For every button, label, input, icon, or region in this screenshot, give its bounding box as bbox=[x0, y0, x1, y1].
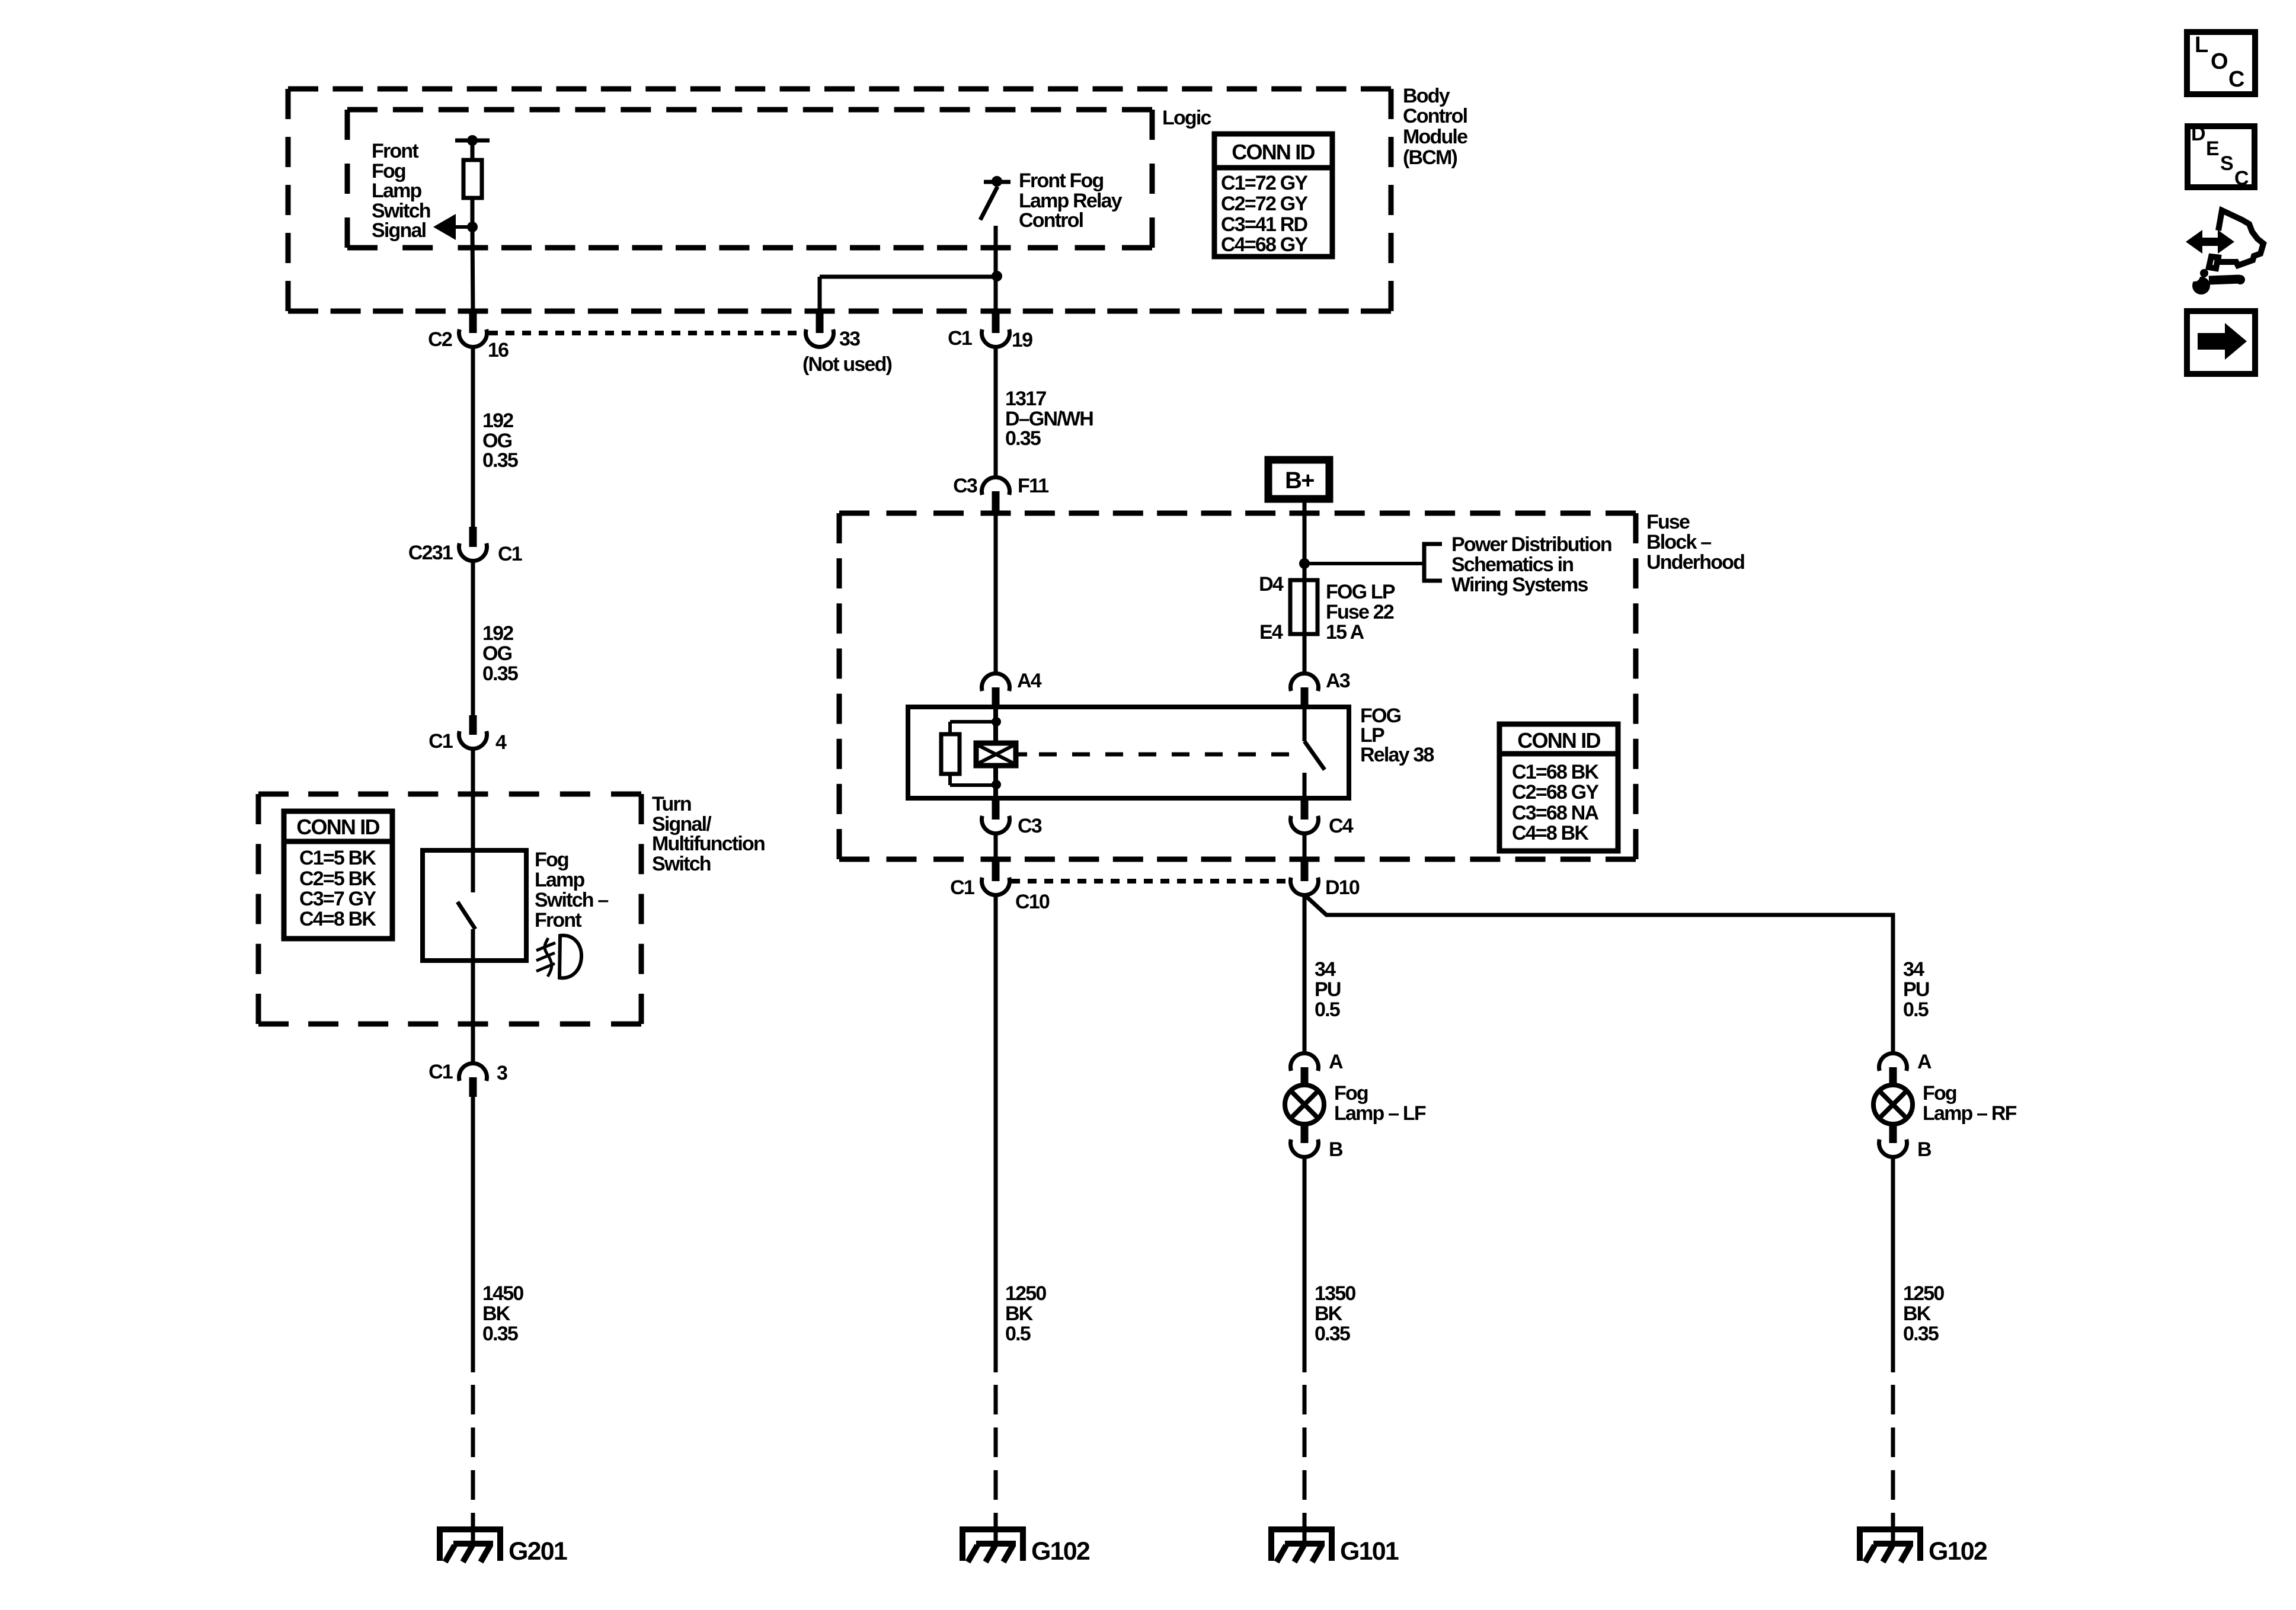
svg-text:L: L bbox=[2195, 33, 2208, 57]
svg-text:C2=72 GY: C2=72 GY bbox=[1221, 193, 1308, 215]
svg-text:A4: A4 bbox=[1017, 670, 1042, 692]
relay box bbox=[908, 707, 1349, 798]
svg-text:0.35: 0.35 bbox=[482, 449, 518, 472]
svg-text:BK: BK bbox=[482, 1302, 511, 1325]
svg-text:15 A: 15 A bbox=[1326, 621, 1364, 644]
svg-text:1450: 1450 bbox=[482, 1282, 523, 1305]
svg-text:D: D bbox=[2191, 123, 2206, 145]
relay control driver blade bbox=[980, 187, 997, 220]
svg-text:192: 192 bbox=[482, 622, 513, 645]
relay switch upper contact bbox=[1303, 709, 1307, 741]
svg-text:S: S bbox=[2220, 152, 2234, 175]
svg-text:16: 16 bbox=[488, 339, 509, 361]
svg-text:D4: D4 bbox=[1259, 573, 1284, 596]
connector C3 pin F11 bbox=[982, 478, 1010, 495]
DESC icon box bbox=[2188, 126, 2255, 187]
svg-text:1250: 1250 bbox=[1005, 1282, 1046, 1305]
wire 192 OG lower bbox=[471, 561, 475, 716]
signal arrow (Front Fog Lamp Switch Signal) bbox=[443, 225, 472, 229]
svg-text:E: E bbox=[2206, 137, 2220, 160]
in-line connector dotted line C2-33 bbox=[489, 331, 803, 335]
svg-text:1350: 1350 bbox=[1315, 1282, 1355, 1305]
wire 1317 bbox=[994, 347, 998, 478]
B+ terminal bbox=[1268, 460, 1329, 499]
dashed wire to G201 bbox=[471, 1385, 475, 1527]
svg-text:1250: 1250 bbox=[1903, 1282, 1944, 1305]
wire bbox=[994, 226, 998, 313]
wire bbox=[471, 198, 475, 229]
in-line connector dotted line C10-D10 bbox=[1011, 879, 1290, 884]
svg-text:Control: Control bbox=[1403, 105, 1467, 127]
wire C4 to box edge bbox=[1303, 833, 1307, 862]
wire from B+ bbox=[1303, 502, 1307, 581]
connector C231 C1 bbox=[469, 527, 477, 547]
svg-text:C4: C4 bbox=[1329, 815, 1354, 837]
svg-text:CONN ID: CONN ID bbox=[1517, 728, 1600, 753]
node: coil top bbox=[992, 717, 1001, 726]
svg-text:Lamp – RF: Lamp – RF bbox=[1923, 1102, 2017, 1125]
svg-text:O: O bbox=[2211, 49, 2228, 74]
svg-text:C3=41 RD: C3=41 RD bbox=[1221, 213, 1308, 236]
svg-text:A: A bbox=[1329, 1051, 1343, 1073]
wire D10 down bbox=[1303, 895, 1307, 1054]
svg-text:(Not used): (Not used) bbox=[802, 353, 892, 376]
svg-text:B+: B+ bbox=[1285, 468, 1314, 494]
svg-text:0.35: 0.35 bbox=[1903, 1323, 1939, 1345]
svg-text:Lamp: Lamp bbox=[372, 180, 422, 202]
relay resistor branch bbox=[950, 720, 996, 724]
wire C3 to box edge bbox=[994, 833, 998, 862]
svg-text:C1: C1 bbox=[428, 1061, 453, 1083]
fog lamp RF bbox=[1873, 1085, 1913, 1124]
svg-text:Fuse: Fuse bbox=[1646, 511, 1690, 533]
svg-text:Relay 38: Relay 38 bbox=[1360, 744, 1434, 766]
fog lamp icon bbox=[559, 936, 581, 978]
svg-text:1317: 1317 bbox=[1005, 388, 1046, 410]
svg-text:Signal: Signal bbox=[372, 219, 426, 242]
svg-text:C3=7 GY: C3=7 GY bbox=[299, 888, 376, 910]
ground G201 bbox=[440, 1529, 500, 1561]
svg-text:192: 192 bbox=[482, 409, 513, 432]
Turn Signal/Multifunction Switch dashed box bbox=[258, 792, 641, 797]
connector pin 33 (Not used) bbox=[816, 312, 824, 333]
svg-text:CONN ID: CONN ID bbox=[296, 815, 379, 839]
fuse FOG LP 22 (D4/E4) bbox=[1290, 580, 1318, 634]
svg-text:A: A bbox=[1917, 1051, 1932, 1073]
svg-text:Schematics in: Schematics in bbox=[1451, 553, 1573, 576]
svg-text:Body: Body bbox=[1403, 85, 1450, 107]
relay switch blade bbox=[1304, 741, 1325, 770]
ground G102 (RF) bbox=[1860, 1529, 1920, 1561]
svg-text:C3=68 NA: C3=68 NA bbox=[1512, 802, 1599, 824]
svg-text:(BCM): (BCM) bbox=[1403, 146, 1457, 169]
svg-text:Fog: Fog bbox=[1923, 1082, 1956, 1105]
svg-text:Block –: Block – bbox=[1646, 531, 1711, 553]
connector C1 pin 4 bbox=[469, 715, 477, 735]
svg-text:Lamp – LF: Lamp – LF bbox=[1334, 1102, 1426, 1125]
svg-text:4: 4 bbox=[495, 731, 507, 754]
next-page arrow icon box bbox=[2187, 311, 2255, 374]
svg-text:PU: PU bbox=[1315, 978, 1341, 1001]
wire D10 to RF lamp bbox=[1304, 895, 1893, 1054]
svg-text:C2=5 BK: C2=5 BK bbox=[299, 868, 376, 890]
svg-text:G101: G101 bbox=[1340, 1537, 1399, 1566]
TS CONN ID table bbox=[284, 811, 392, 939]
fog lamp LF bbox=[1285, 1085, 1324, 1124]
connector C3 (relay out) bbox=[992, 798, 1000, 820]
svg-text:Fog: Fog bbox=[535, 849, 568, 871]
wire 1250 BK (RF) bbox=[1891, 1157, 1895, 1372]
BCM CONN ID table bbox=[1214, 134, 1332, 257]
svg-text:C2: C2 bbox=[428, 328, 452, 351]
svg-text:BK: BK bbox=[1903, 1302, 1932, 1325]
svg-text:0.5: 0.5 bbox=[1903, 998, 1929, 1021]
svg-text:C1: C1 bbox=[498, 543, 522, 565]
svg-text:0.35: 0.35 bbox=[482, 1323, 518, 1345]
relay coil wire bbox=[993, 707, 998, 744]
svg-text:G102: G102 bbox=[1031, 1537, 1090, 1566]
Body Control Module (BCM) dashed box bbox=[288, 87, 1391, 92]
Logic dashed box bbox=[347, 107, 1152, 113]
fog lamp switch box bbox=[423, 850, 526, 961]
switch upper contact bbox=[471, 850, 475, 892]
svg-text:C4=8 BK: C4=8 BK bbox=[299, 908, 376, 930]
Fuse Block - Underhood dashed box bbox=[839, 511, 1636, 516]
svg-text:C1=72 GY: C1=72 GY bbox=[1221, 172, 1308, 194]
svg-text:C: C bbox=[2234, 167, 2249, 190]
wire 1350 BK bbox=[1303, 1157, 1307, 1372]
node: logic input tee bbox=[455, 139, 490, 143]
connector A (LF) bbox=[1291, 1054, 1319, 1071]
svg-text:C1: C1 bbox=[428, 730, 453, 753]
switch lower wire bbox=[471, 929, 475, 1065]
wire 192 OG bbox=[471, 347, 475, 527]
svg-text:D10: D10 bbox=[1325, 876, 1360, 899]
relay coil X-box bbox=[976, 743, 1016, 766]
connector B (RF) bbox=[1879, 1140, 1907, 1157]
svg-text:Turn: Turn bbox=[652, 793, 691, 815]
svg-text:B: B bbox=[1917, 1138, 1932, 1161]
connector C1 pin 3 bbox=[459, 1064, 487, 1081]
svg-text:C1: C1 bbox=[950, 876, 974, 899]
svg-text:Module: Module bbox=[1403, 126, 1467, 148]
wire 1450 BK bbox=[471, 1096, 475, 1372]
svg-text:C1: C1 bbox=[948, 327, 972, 350]
svg-text:Switch: Switch bbox=[652, 853, 711, 875]
ground G101 bbox=[1271, 1529, 1332, 1561]
svg-text:E4: E4 bbox=[1259, 621, 1283, 644]
svg-text:Switch –: Switch – bbox=[535, 889, 608, 911]
connector B (LF) bbox=[1291, 1140, 1319, 1157]
svg-text:Front: Front bbox=[535, 909, 581, 932]
svg-text:C10: C10 bbox=[1015, 891, 1050, 913]
svg-text:Fog: Fog bbox=[1334, 1082, 1368, 1105]
svg-text:CONN ID: CONN ID bbox=[1232, 140, 1315, 164]
svg-text:0.35: 0.35 bbox=[482, 662, 518, 685]
relay control dashed line bbox=[1016, 753, 1027, 757]
connector D10 bbox=[1301, 861, 1309, 881]
svg-text:Fuse 22: Fuse 22 bbox=[1326, 601, 1394, 623]
relay switch lower contact bbox=[1303, 773, 1307, 796]
wire fuse to A3 bbox=[1303, 634, 1307, 674]
schematic/wrench icon bbox=[2186, 230, 2234, 254]
svg-text:0.5: 0.5 bbox=[1315, 998, 1340, 1021]
connector C1 pin 19 bbox=[992, 312, 1000, 333]
wire bbox=[472, 227, 473, 313]
dashed wire to G102 bbox=[994, 1385, 998, 1527]
FB CONN ID table bbox=[1499, 724, 1618, 851]
svg-text:C231: C231 bbox=[408, 542, 453, 564]
svg-text:A3: A3 bbox=[1326, 670, 1350, 692]
svg-text:C1=5 BK: C1=5 BK bbox=[299, 847, 376, 869]
connector A4 bbox=[982, 674, 1010, 692]
svg-text:34: 34 bbox=[1903, 958, 1924, 981]
node: branch to pin 33 bbox=[992, 271, 1002, 281]
svg-text:OG: OG bbox=[482, 642, 512, 665]
connector C2 pin 16 bbox=[469, 312, 477, 333]
LOC icon box bbox=[2187, 32, 2255, 94]
svg-text:34: 34 bbox=[1315, 958, 1336, 981]
svg-text:G102: G102 bbox=[1929, 1537, 1987, 1566]
svg-text:BK: BK bbox=[1005, 1302, 1034, 1325]
svg-text:C4=8 BK: C4=8 BK bbox=[1512, 822, 1589, 844]
svg-text:C3: C3 bbox=[1018, 815, 1042, 837]
svg-text:BK: BK bbox=[1315, 1302, 1343, 1325]
connector A (RF) bbox=[1879, 1054, 1907, 1071]
svg-text:0.5: 0.5 bbox=[1005, 1323, 1031, 1345]
dashed wire to G102 (RF) bbox=[1891, 1385, 1895, 1527]
svg-text:0.35: 0.35 bbox=[1005, 427, 1041, 450]
wire to power distribution ref bbox=[1304, 562, 1424, 565]
svg-text:C4=68 GY: C4=68 GY bbox=[1221, 233, 1308, 256]
relay control driver pivot bbox=[984, 180, 1011, 184]
svg-text:Front Fog: Front Fog bbox=[1019, 169, 1103, 192]
svg-text:B: B bbox=[1329, 1138, 1343, 1161]
connector A3 bbox=[1291, 674, 1319, 692]
svg-text:C3: C3 bbox=[953, 475, 977, 497]
switch blade bbox=[458, 902, 475, 929]
wire bbox=[471, 140, 475, 161]
svg-text:33: 33 bbox=[839, 328, 860, 350]
svg-text:Wiring Systems: Wiring Systems bbox=[1451, 574, 1588, 596]
svg-text:Multifunction: Multifunction bbox=[652, 833, 765, 855]
wire into switch bbox=[471, 748, 475, 852]
svg-text:C: C bbox=[2228, 67, 2244, 92]
node: coil bottom bbox=[992, 780, 1001, 789]
svg-text:19: 19 bbox=[1012, 329, 1032, 351]
svg-text:Logic: Logic bbox=[1162, 107, 1211, 129]
resistor: switch signal pull-up bbox=[463, 160, 482, 198]
power distribution bracket bbox=[1424, 544, 1442, 581]
svg-text:3: 3 bbox=[497, 1062, 507, 1084]
wire to A4 bbox=[994, 513, 998, 674]
wire 1250 BK bbox=[994, 895, 998, 1372]
svg-text:Front: Front bbox=[372, 140, 418, 162]
connector C1/C10 bbox=[992, 861, 1000, 881]
svg-text:PU: PU bbox=[1903, 978, 1929, 1001]
svg-text:Underhood: Underhood bbox=[1646, 551, 1744, 574]
wire to pin 33 bbox=[820, 275, 997, 279]
svg-text:F11: F11 bbox=[1018, 475, 1048, 497]
ground G102 bbox=[962, 1529, 1023, 1561]
svg-text:Power Distribution: Power Distribution bbox=[1451, 533, 1611, 556]
svg-text:G201: G201 bbox=[509, 1537, 567, 1566]
svg-text:Control: Control bbox=[1019, 209, 1083, 232]
node: B+ branch bbox=[1299, 558, 1310, 569]
svg-text:0.35: 0.35 bbox=[1315, 1323, 1350, 1345]
svg-text:C1=68 BK: C1=68 BK bbox=[1512, 761, 1600, 783]
svg-text:Lamp: Lamp bbox=[535, 869, 585, 891]
svg-text:C2=68 GY: C2=68 GY bbox=[1512, 781, 1599, 804]
connector C4 (relay out) bbox=[1301, 798, 1309, 820]
dashed wire to G101 bbox=[1303, 1385, 1307, 1527]
svg-text:FOG LP: FOG LP bbox=[1326, 581, 1395, 603]
